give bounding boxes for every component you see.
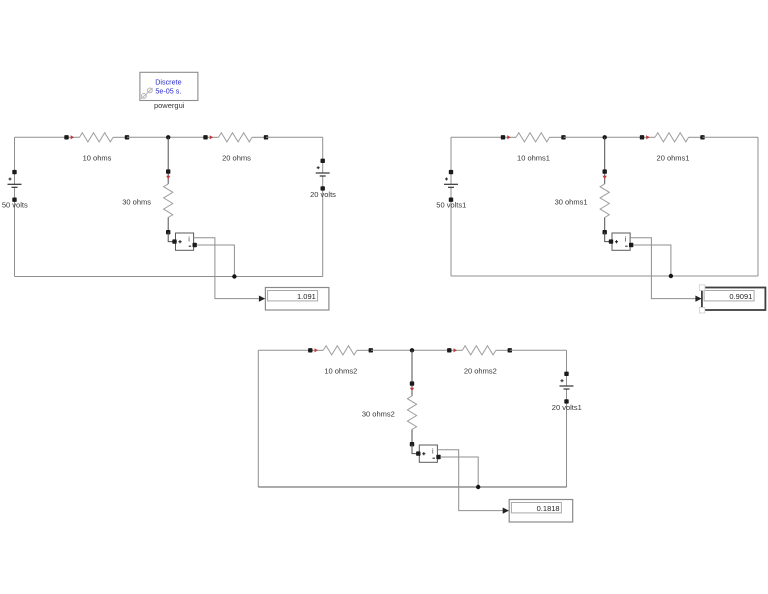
display block D2 showing 0.9091 [699, 285, 765, 313]
wire: circuit 2 right net [757, 137, 759, 276]
resistor R33 (30 ohms2): series RLC branch (vertical) [407, 381, 416, 446]
powergui block (Discrete 5e-05 s.) [140, 72, 198, 100]
svg-text:powergui: powergui [154, 101, 185, 110]
DC voltage source V1R [316, 166, 330, 176]
port I2 - (right) [629, 243, 633, 247]
port I1 - (right) [193, 243, 197, 247]
svg-text:50 volts1: 50 volts1 [436, 201, 466, 210]
wire: circuit 3 top net segment A [258, 349, 310, 351]
svg-text:0.9091: 0.9091 [729, 292, 752, 301]
arrowhead into display D2 [695, 296, 701, 302]
port V1L + terminal [12, 170, 16, 174]
node: circuit 1 bottom junction [232, 274, 236, 278]
wire: circuit 3 bottom net [258, 486, 566, 488]
node: circuit 1 top junction [166, 135, 170, 139]
svg-text:20 volts: 20 volts [310, 190, 336, 199]
current direction arrow on R21 (10 ohms1) left port [507, 135, 510, 139]
DC voltage source V1L [8, 178, 22, 188]
node: circuit 3 top junction [410, 348, 414, 352]
wire: I3 signal i to display D3 [437, 450, 508, 511]
wire: circuit 2 bottom net [451, 275, 758, 277]
svg-text:20 volts1: 20 volts1 [552, 403, 582, 412]
resistor R12 (20 ohms): series RLC branch [203, 133, 268, 142]
port V1L - terminal [12, 198, 16, 202]
DC voltage source V2L [444, 178, 458, 188]
resistor R11 (10 ohms): series RLC branch [64, 133, 129, 142]
wire: circuit 1 left net lower [14, 187, 16, 276]
current direction arrow on R13 (30 ohms) top port [166, 176, 170, 179]
wire: circuit 1 junction to R13 [167, 137, 169, 171]
arrowhead into display D3 [503, 508, 509, 514]
svg-text:30 ohms: 30 ohms [122, 197, 151, 206]
svg-text:1.091: 1.091 [297, 292, 316, 301]
port V1R + terminal [321, 159, 325, 163]
wire: circuit 1 right net lower [322, 176, 324, 277]
wire: circuit 3 right net lower [566, 389, 568, 487]
wire: I3 - terminal to bottom net [440, 457, 478, 487]
current direction arrow on R22 (20 ohms1) left port [646, 135, 649, 139]
current direction arrow on R32 (20 ohms2) left port [454, 348, 457, 352]
svg-text:30 ohms2: 30 ohms2 [362, 409, 395, 418]
port V3R - terminal [564, 399, 568, 403]
wire: circuit 1 top net segment A [15, 136, 67, 138]
current direction arrow on R12 (20 ohms) left port [210, 135, 213, 139]
wire: circuit 2 left net upper [450, 137, 452, 184]
wire: R33 to current measurement + [412, 444, 418, 453]
wire: I2 signal i to display D2 [630, 238, 701, 299]
wire: I1 - terminal to bottom net [197, 245, 235, 277]
wire: I1 signal i to display D1 [194, 238, 265, 299]
DC voltage source V3R [560, 379, 574, 389]
port I3 + (left) [416, 451, 420, 455]
wire: circuit 1 bottom net [15, 276, 323, 278]
wire: circuit 2 top net segment C [703, 136, 759, 138]
current measurement block I1 [176, 233, 194, 250]
port I3 - (right) [436, 455, 440, 459]
node: circuit 2 bottom junction [669, 274, 673, 278]
svg-text:20 ohms2: 20 ohms2 [464, 367, 497, 376]
svg-text:10 ohms: 10 ohms [83, 154, 112, 163]
resistor R21 (10 ohms1): series RLC branch [501, 133, 566, 142]
wire: circuit 3 left net [257, 350, 259, 487]
wire: circuit 2 top net segment B [564, 136, 643, 138]
svg-text:0.1818: 0.1818 [537, 504, 560, 513]
arrowhead into display D1 [259, 296, 265, 302]
wire: circuit 1 left net upper [14, 137, 16, 184]
current direction arrow on R33 (30 ohms2) top port [410, 388, 414, 391]
port V3R + terminal [564, 372, 568, 376]
display block D3 showing 0.1818 [509, 500, 573, 523]
svg-text:20 ohms1: 20 ohms1 [657, 154, 690, 163]
wire: I2 - terminal to bottom net [633, 245, 671, 276]
wire: R13 to current measurement + [168, 232, 174, 241]
port V2L - terminal [449, 198, 453, 202]
resistor R13 (30 ohms): series RLC branch (vertical) [164, 169, 173, 234]
resistor R22 (20 ohms1): series RLC branch [640, 133, 705, 142]
wire: circuit 1 top net segment C [266, 136, 323, 138]
port I2 + (left) [609, 239, 613, 243]
node: circuit 3 bottom junction [476, 485, 480, 489]
svg-text:10 ohms2: 10 ohms2 [324, 367, 357, 376]
resistor R32 (20 ohms2): series RLC branch [447, 346, 512, 355]
svg-text:Discrete: Discrete [155, 77, 181, 86]
svg-text:20 ohms: 20 ohms [222, 154, 251, 163]
node: circuit 2 top junction [603, 135, 607, 139]
svg-text:5e-05 s.: 5e-05 s. [155, 87, 181, 96]
port I1 + (left) [172, 239, 176, 243]
current direction arrow on R31 (10 ohms2) left port [315, 348, 318, 352]
wire: R23 to current measurement + [605, 232, 611, 241]
wire: circuit 1 top net segment B [127, 136, 206, 138]
current direction arrow on R11 (10 ohms) left port [71, 135, 74, 139]
wire: circuit 3 right net upper [566, 350, 568, 386]
wire: circuit 3 junction to R33 [411, 350, 413, 383]
port V1R - terminal [321, 186, 325, 190]
wire: circuit 3 top net segment C [510, 349, 567, 351]
port V2L + terminal [449, 170, 453, 174]
svg-text:10 ohms1: 10 ohms1 [517, 154, 550, 163]
svg-text:50 volts: 50 volts [2, 201, 28, 210]
wire: circuit 3 top net segment B [371, 349, 450, 351]
resistor R31 (10 ohms2): series RLC branch [308, 346, 373, 355]
wire: circuit 2 left net lower [450, 187, 452, 276]
current direction arrow on R23 (30 ohms1) top port [603, 176, 607, 179]
current measurement block I3 [419, 445, 437, 462]
wire: circuit 2 top net segment A [451, 136, 503, 138]
wire: circuit 2 junction to R23 [604, 137, 606, 171]
display block D1 showing 1.091 [265, 288, 329, 311]
svg-text:30 ohms1: 30 ohms1 [555, 197, 588, 206]
wire: circuit 1 right net upper [322, 137, 324, 173]
current measurement block I2 [612, 233, 630, 250]
resistor R23 (30 ohms1): series RLC branch (vertical) [600, 169, 609, 234]
